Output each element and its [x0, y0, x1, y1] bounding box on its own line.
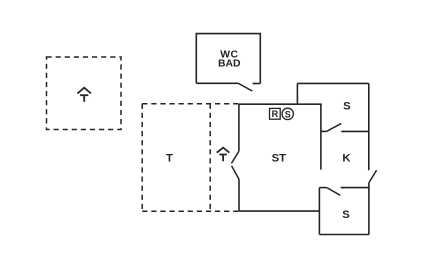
wall: ST/K divider: [320, 104, 322, 169]
door strike barb: WC door: [252, 83, 255, 85]
wall: S top room left: [296, 83, 298, 104]
T stem: [222, 155, 224, 162]
svg-text:K: K: [342, 152, 351, 164]
symbol R in square: [270, 108, 281, 119]
door leaf: S room door: [327, 124, 342, 132]
wire: terrace bottom edge: [142, 210, 239, 212]
wall: ST left upper: [238, 104, 240, 151]
door leaf: S bottom room door: [327, 188, 340, 196]
svg-text:T: T: [166, 152, 173, 164]
room S (top right): [297, 83, 368, 169]
wall: S bottom room top-left stub: [319, 187, 327, 189]
symbol S in circle: [282, 108, 293, 119]
symbol T-hat (at ST door): [217, 148, 230, 162]
dashed terrace T (middle): [142, 104, 239, 212]
wall: S bottom room left: [318, 188, 320, 235]
symbol T-hat (left terrace): [77, 88, 91, 102]
T bar: [80, 94, 88, 96]
door strike barb: K outer door: [368, 168, 370, 171]
wall: S/K divider left stub: [321, 130, 327, 132]
wire: dashed square outline: [47, 57, 122, 130]
svg-text:BAD: BAD: [218, 59, 241, 70]
room WC/BAD detail box: [196, 34, 260, 91]
svg-text:ST: ST: [272, 153, 287, 165]
wall: ST bottom: [239, 210, 320, 212]
chevron: [217, 148, 230, 153]
T stem: [83, 95, 85, 102]
wall: S bottom room bottom: [319, 234, 369, 236]
door leaf: WC door: [238, 83, 252, 91]
door leaf: right outer door: [369, 170, 377, 183]
door leaf: terrace double door upper: [231, 151, 239, 163]
wall: ST top: [239, 103, 322, 105]
wall: right outer lower: [368, 183, 370, 235]
wall: S bottom room top-right: [341, 187, 369, 189]
wall: ST left lower: [238, 180, 240, 212]
wall: right outer upper: [368, 83, 370, 169]
wire: terrace left edge: [141, 104, 143, 212]
chevron: [77, 88, 91, 94]
door strike barb: S bottom door: [340, 187, 343, 189]
door leaf: terrace double door lower: [232, 166, 240, 180]
wall: WC box top+left+right: [196, 34, 260, 84]
svg-text:R: R: [272, 109, 279, 119]
wall: S/K divider right part: [342, 130, 369, 132]
door strike barb: S/K door: [340, 130, 343, 132]
svg-text:S: S: [285, 109, 291, 119]
wire: terrace top edge: [142, 103, 239, 105]
wire: terrace inner vertical: [209, 104, 211, 212]
T bar: [219, 154, 226, 156]
wall: WC box bottom-right stub: [253, 83, 261, 85]
dashed terrace square (left): [47, 57, 122, 130]
svg-text:S: S: [343, 101, 351, 113]
wall: WC box bottom-left: [196, 82, 238, 84]
wall: S top room top: [297, 82, 368, 84]
room S (bottom right): [319, 183, 369, 235]
svg-text:S: S: [342, 209, 350, 221]
room ST walls: [231, 104, 321, 211]
